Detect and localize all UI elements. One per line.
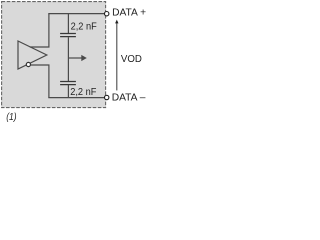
svg-text:DATA –: DATA –: [112, 92, 146, 104]
wire: non-inverting output tap: [30, 14, 49, 47]
background: [0, 0, 147, 124]
capacitor C2 bottom lead: [67, 85, 69, 97]
svg-text:2,2 nF: 2,2 nF: [71, 21, 97, 33]
wire: inverting output tap: [31, 65, 49, 98]
svg-text:(1): (1): [6, 112, 16, 123]
inverting output bubble: [26, 62, 30, 66]
node DATA- terminal circle: [105, 95, 109, 99]
wire: top rail to DATA+: [48, 13, 104, 15]
node DATA+ terminal circle: [105, 12, 109, 16]
VOD measurement arrow: [116, 23, 118, 91]
capacitor C1 bottom lead / series link: [67, 37, 69, 81]
capacitor C1 top lead: [67, 14, 69, 33]
wire: bottom rail to DATA-: [48, 97, 104, 99]
dashed enclosure box: [2, 2, 106, 108]
capacitor C2 plates (2,2 nF): [60, 82, 76, 85]
capacitor C1 plates (2,2 nF): [60, 34, 76, 37]
svg-text:VOD: VOD: [121, 54, 142, 65]
svg-text:DATA +: DATA +: [112, 7, 146, 19]
driver triangle U1: [18, 41, 47, 69]
center-tap arrow: [68, 57, 81, 59]
svg-text:2,2 nF: 2,2 nF: [70, 86, 96, 98]
